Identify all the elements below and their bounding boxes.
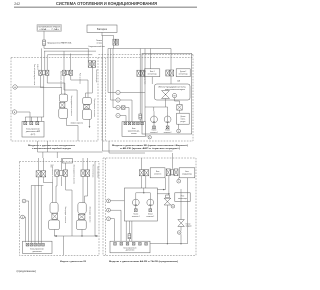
dashed border top-left circuit	[11, 58, 98, 141]
svg-text:F: F	[149, 137, 150, 139]
relay connector trio	[166, 169, 170, 176]
svg-text:управления дви-: управления дви-	[128, 130, 140, 132]
solenoid valve 2 bottom	[147, 199, 154, 206]
inline diode component	[122, 106, 126, 110]
battery connector	[113, 39, 116, 45]
svg-text:Датчик: Датчик	[181, 116, 186, 118]
connector ring A	[13, 85, 17, 89]
svg-text:Модели с удалителем конденсата: Модели с удалителем конденсата	[28, 145, 76, 147]
header rule	[14, 6, 197, 8]
small junction label box	[63, 159, 73, 163]
wires bus to relay connectors	[41, 48, 43, 70]
wire motor down	[154, 99, 168, 112]
svg-text:отопителя 1: отопителя 1	[132, 216, 140, 218]
connector pair C	[81, 170, 85, 176]
fuse on ECU wire bottom	[128, 234, 131, 239]
svg-text:Электродвигатель: Электродвигатель	[158, 87, 186, 89]
main feed wire down-left	[102, 39, 104, 151]
blower switch stack 2 lower	[83, 110, 92, 120]
solenoid valve 1 bottom	[132, 199, 139, 206]
svg-text:вентилятора: вентилятора	[179, 73, 188, 75]
ignition connector pair	[139, 170, 143, 176]
svg-text:гателем: гателем	[131, 133, 137, 135]
svg-text:Клапан: Клапан	[186, 224, 191, 226]
svg-text:Плавкая: Плавкая	[96, 40, 102, 42]
wire from fuse block down	[43, 31, 45, 40]
dashed border bottom-right circuit	[103, 158, 196, 255]
wire arrow line to border	[63, 236, 65, 255]
svg-text:двигателем: двигателем	[32, 251, 42, 253]
wire right edge bottom-left	[94, 161, 96, 236]
damper servo module 2 lower	[77, 220, 87, 229]
svg-text:Батарея: Батарея	[97, 27, 108, 31]
inter-section wires	[38, 141, 103, 158]
svg-text:Электродвигатель заслонки: Электродвигатель заслонки	[72, 165, 74, 185]
A/C relay connector	[137, 70, 140, 76]
svg-text:Предохранитель HEATER 30 A: Предохранитель HEATER 30 A	[47, 41, 72, 44]
svg-text:Замок зажигания: Замок зажигания	[96, 166, 98, 178]
fuse on ECU wire	[139, 114, 142, 119]
heater relay connector trio B	[55, 170, 59, 176]
heater relay label box	[150, 168, 165, 178]
blower motor stack 1 lower	[59, 108, 68, 118]
vacuum valve box	[124, 188, 157, 221]
svg-text:Электродвигатель отопителя: Электродвигатель отопителя	[70, 96, 72, 116]
svg-text:Клапан: Клапан	[148, 214, 153, 216]
connector ring C	[22, 199, 26, 203]
svg-text:Реле: Реле	[181, 195, 185, 197]
svg-text:вставка: вставка	[97, 42, 103, 44]
feed bus right	[114, 45, 171, 92]
svg-text:двигателем и АКП: двигателем и АКП	[26, 130, 41, 133]
wire stack1 to border	[67, 118, 79, 141]
svg-text:«30А ··· 7,5А»: «30А ··· 7,5А»	[39, 28, 59, 31]
blower switch stack 2 upper	[83, 97, 92, 104]
svg-text:М: М	[174, 96, 176, 98]
dashed inner border bottom-right	[104, 158, 106, 255]
heater relay connector cluster 1	[39, 70, 42, 75]
svg-text:вентилятора: вентилятора	[148, 73, 157, 75]
ECU box bottom-right	[110, 241, 150, 253]
bottom collector wire	[150, 231, 188, 244]
fan relay label box	[145, 69, 160, 77]
damper servo module 1 upper	[50, 203, 58, 214]
svg-text:Клапан: Клапан	[133, 214, 138, 216]
svg-text:кондиционера: кондиционера	[182, 173, 192, 175]
dashed border top-right circuit	[102, 58, 193, 141]
svg-text:и 4Е-FE (кроме АКП и «кратких: и 4Е-FE (кроме АКП и «кратких передач»)	[120, 147, 180, 150]
svg-text:Реле: Реле	[156, 171, 160, 173]
junction dot	[64, 94, 65, 95]
svg-text:242: 242	[14, 2, 20, 6]
dashed border bottom-left circuit	[19, 161, 99, 255]
svg-text:Модели с двигателями 2Е (кроме: Модели с двигателями 2Е (кроме исполнени…	[112, 145, 188, 147]
svg-text:ратуры: ратуры	[180, 121, 185, 123]
blower switch stack 2 connector	[84, 105, 90, 109]
wire ring B to ECU	[17, 112, 30, 121]
damper servo module 2 connector	[78, 214, 85, 219]
svg-text:продувки: продувки	[186, 226, 192, 228]
solenoid valve 1 top circuit	[151, 116, 158, 123]
svg-text:Блок: Блок	[185, 171, 189, 173]
heater relay connector cluster 2	[63, 70, 66, 75]
bus wire 3	[48, 54, 93, 56]
ring F	[148, 136, 151, 139]
wires connectors to actuators	[37, 177, 39, 244]
connector ring D	[21, 215, 25, 219]
wire from amp box down	[187, 178, 189, 231]
wire battery down	[102, 32, 114, 39]
battery box	[87, 25, 117, 32]
resistor component on right	[175, 98, 180, 105]
ring B mark	[171, 205, 175, 209]
svg-text:темпе-: темпе-	[181, 118, 186, 120]
svg-text:отопителя 2: отопителя 2	[164, 132, 172, 134]
ECU box top-right	[122, 122, 146, 137]
dashed inner border	[104, 58, 106, 141]
defogger relay connector right	[88, 61, 92, 68]
A/C amplifier label box	[179, 168, 195, 178]
svg-text:Переключатель отопителя: Переключатель отопителя	[93, 99, 95, 118]
parallel wire left of stack 2	[76, 90, 78, 121]
svg-text:двигателем: двигателем	[126, 250, 135, 252]
wires relay row down	[142, 176, 146, 188]
svg-text:Блок управления: Блок управления	[124, 247, 137, 249]
wires vacuum box to ECU	[126, 221, 132, 241]
branch wires down	[108, 48, 114, 50]
svg-text:отопителя 2: отопителя 2	[146, 216, 154, 218]
svg-text:Электродвиг. отопителя: Электродвиг. отопителя	[64, 207, 66, 224]
actuator ground arrow line	[54, 230, 98, 237]
bus wire 2	[44, 50, 96, 52]
svg-text:(ECT): (ECT)	[31, 134, 36, 136]
dashed top rule right	[99, 55, 194, 58]
fan sensor label box	[176, 69, 190, 77]
svg-text:отопителя 1: отопителя 1	[150, 132, 158, 134]
fan relay connector pair	[166, 70, 170, 76]
svg-text:Реле отопителя: Реле отопителя	[79, 73, 81, 84]
svg-text:Электродвиг. заслонки: Электродвиг. заслонки	[89, 207, 91, 223]
solenoid valve 2 top circuit	[164, 116, 171, 123]
svg-text:Блок: Блок	[132, 128, 136, 130]
svg-text:(продолжение): (продолжение)	[17, 270, 37, 273]
svg-text:СИСТЕМА ОТОПЛЕНИЯ И КОНДИЦИОНИ: СИСТЕМА ОТОПЛЕНИЯ И КОНДИЦИОНИРОВАНИЯ	[56, 1, 157, 6]
bowtie valve 2	[180, 189, 182, 220]
svg-text:W-B: W-B	[50, 165, 52, 168]
wire defogger relay down	[86, 67, 93, 97]
wire fuse to bus	[43, 45, 45, 48]
wire bus to fan relay	[170, 49, 172, 71]
svg-text:Реле обогрева заднего стекла: Реле обогрева заднего стекла	[33, 64, 35, 85]
A/C amplifier bowtie 1	[166, 195, 170, 198]
ring D	[177, 129, 181, 133]
svg-text:отопителя: отопителя	[154, 173, 161, 175]
connector ring column	[116, 90, 120, 94]
blower motor module	[155, 84, 190, 100]
damper servo module 2 upper	[78, 203, 86, 214]
connector ring B	[12, 110, 16, 114]
svg-text:Клапан: Клапан	[152, 130, 157, 132]
motor M circle	[172, 93, 176, 97]
ring E mark	[178, 231, 182, 235]
svg-text:вентилятора: вентилятора	[178, 198, 187, 200]
bus wire 1	[44, 48, 88, 60]
damper servo module 1 connector	[52, 213, 58, 219]
damper servo module 1 lower	[49, 220, 60, 230]
wire relay to blower resistor	[40, 75, 61, 94]
wire stack2 ground arrow	[89, 119, 91, 126]
blower motor bowtie symbol	[162, 91, 170, 99]
fuse F1 (HEATER)	[43, 40, 46, 45]
svg-text:Датчик 2: Датчик 2	[180, 71, 186, 73]
svg-text:Реле вентилятора: Реле вентилятора	[95, 70, 97, 83]
wire ECU to ring F	[146, 135, 149, 137]
svg-text:и автоматической коробкой пере: и автоматической коробкой передач	[32, 147, 72, 150]
blower motor stack 1 upper	[59, 94, 67, 102]
temperature sensor box	[177, 113, 190, 124]
connector ring column bottom	[107, 199, 111, 203]
blower motor stack 1 connector	[60, 102, 65, 108]
svg-text:Реле вентилятора: Реле вентилятора	[92, 165, 94, 178]
svg-text:(низкая скорость): (низкая скорость)	[71, 123, 84, 125]
svg-text:Реле 1: Реле 1	[150, 71, 155, 73]
wire ring A to ECU	[17, 75, 44, 122]
svg-text:W-B L-R: W-B L-R	[36, 64, 38, 71]
heater switch connector pair A	[36, 171, 41, 177]
ECU box left	[22, 121, 44, 137]
wire relay box to blower	[151, 77, 153, 84]
fuse/relay block box top-left	[37, 25, 61, 31]
heater unit solid box	[142, 54, 192, 135]
svg-text:Модели с двигателями 4A-FE и 7: Модели с двигателями 4A-FE и 7A-FE (прод…	[109, 260, 178, 263]
ring D mark	[177, 179, 181, 183]
dashed top rule full width	[11, 57, 193, 59]
svg-text:Модели с двигателем СЕ: Модели с двигателем СЕ	[60, 261, 87, 263]
svg-text:Клапан: Клапан	[165, 130, 170, 132]
svg-text:Выключатель отопителя: Выключатель отопителя	[59, 71, 61, 88]
ECU box bottom-left	[23, 241, 53, 253]
ECU feed wires	[31, 186, 43, 244]
